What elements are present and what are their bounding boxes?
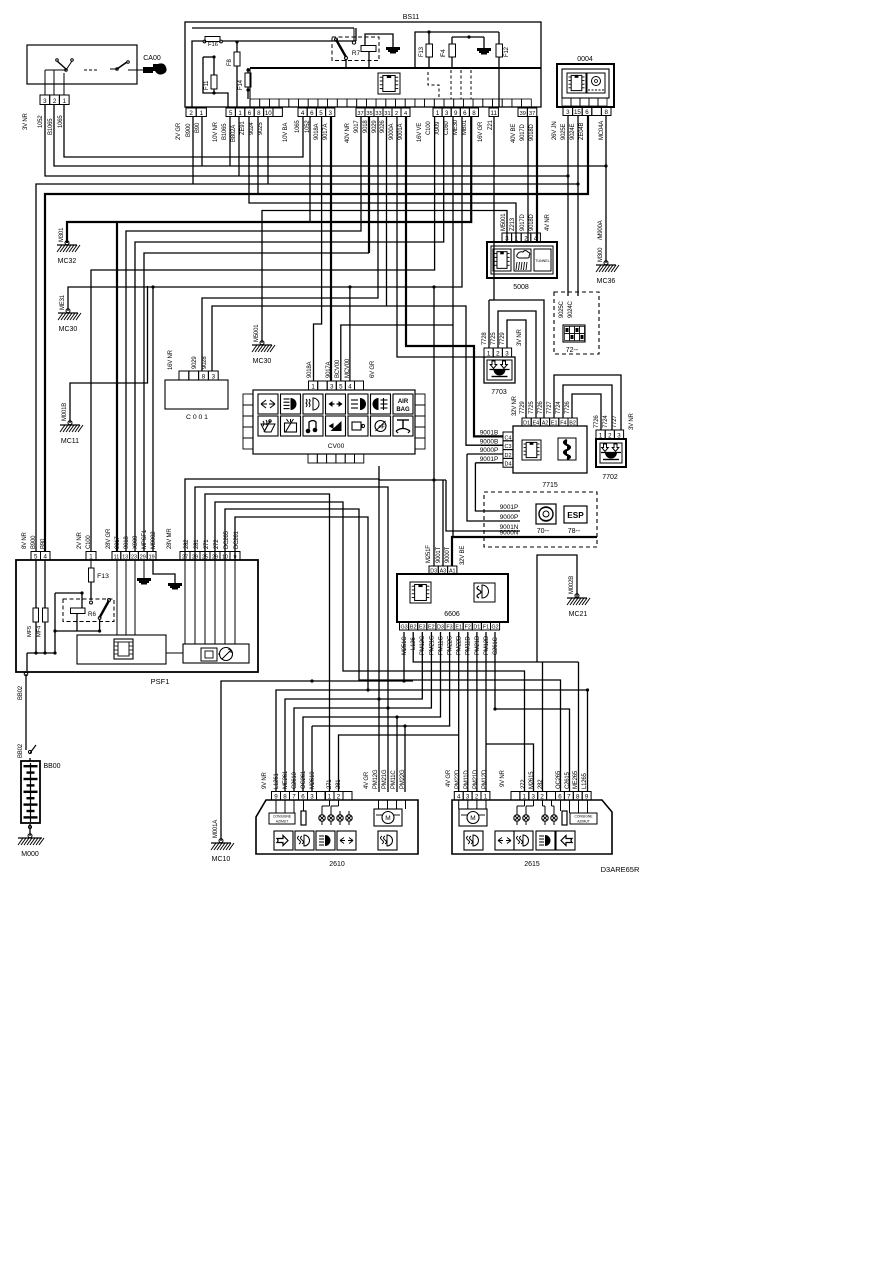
svg-text:BCV00: BCV00: [335, 359, 341, 378]
svg-text:PM12G: PM12G: [373, 769, 379, 789]
svg-text:M001B: M001B: [62, 403, 68, 421]
svg-text:BB02: BB02: [18, 685, 24, 700]
svg-text:D1: D1: [473, 625, 480, 631]
svg-text:F8: F8: [227, 59, 233, 66]
svg-text:7725: 7725: [491, 332, 497, 345]
svg-text:2: 2: [395, 111, 398, 117]
svg-text:R6: R6: [88, 611, 96, 618]
svg-text:B802A: B802A: [231, 125, 237, 142]
svg-text:8: 8: [202, 374, 206, 381]
svg-text:8: 8: [604, 109, 608, 116]
svg-text:C100: C100: [426, 121, 432, 135]
svg-text:28V GR: 28V GR: [106, 528, 112, 549]
svg-text:MC36: MC36: [597, 278, 616, 285]
svg-text:E2: E2: [428, 625, 435, 631]
svg-text:MC32: MC32: [58, 258, 77, 265]
svg-text:PM21G: PM21G: [382, 769, 388, 789]
svg-text:70--: 70--: [537, 528, 550, 535]
svg-text:0004: 0004: [577, 56, 593, 63]
svg-text:6606: 6606: [444, 611, 460, 618]
svg-text:281: 281: [194, 539, 200, 549]
svg-text:M002B: M002B: [569, 576, 575, 594]
svg-text:8: 8: [283, 794, 287, 801]
svg-text:9029: 9029: [372, 120, 378, 133]
svg-text:72--: 72--: [566, 347, 579, 354]
svg-text:10: 10: [265, 110, 272, 117]
svg-text:C160: C160: [444, 121, 450, 135]
svg-text:AIR: AIR: [398, 399, 409, 405]
svg-text:9000P: 9000P: [500, 514, 518, 521]
svg-text:3: 3: [445, 110, 449, 117]
svg-text:B90: B90: [195, 122, 201, 133]
svg-text:9028: 9028: [202, 356, 208, 369]
svg-text:C100: C100: [86, 535, 92, 549]
svg-text:PM22D: PM22D: [457, 635, 463, 655]
svg-text:32V BE: 32V BE: [460, 546, 466, 565]
svg-text:5008: 5008: [513, 284, 529, 291]
svg-text:L1261: L1261: [274, 772, 280, 789]
svg-text:7724: 7724: [603, 415, 609, 428]
svg-text:MF4: MF4: [37, 625, 43, 637]
svg-text:E1: E1: [455, 625, 462, 631]
svg-text:CONSIGNE: CONSIGNE: [273, 815, 292, 819]
svg-text:M2615: M2615: [529, 771, 535, 789]
svg-text:2: 2: [540, 794, 544, 801]
svg-text:2: 2: [337, 794, 341, 801]
svg-text:1052: 1052: [305, 120, 311, 133]
svg-text:7729: 7729: [500, 332, 506, 345]
svg-text:MC11: MC11: [61, 438, 79, 445]
svg-text:7726: 7726: [538, 401, 544, 414]
svg-text:11: 11: [490, 110, 497, 117]
svg-text:E1: E1: [551, 421, 558, 427]
svg-text:F1: F1: [483, 625, 489, 631]
svg-text:M301: M301: [59, 227, 65, 242]
svg-text:28V MR: 28V MR: [167, 528, 173, 549]
svg-text:9017: 9017: [354, 120, 360, 133]
svg-text:2: 2: [189, 110, 193, 117]
svg-text:271: 271: [327, 779, 333, 789]
svg-text:F2: F2: [465, 625, 471, 631]
svg-text:7: 7: [567, 794, 571, 801]
svg-text:F3: F3: [446, 625, 452, 631]
svg-text:40V BE: 40V BE: [511, 124, 517, 143]
svg-text:PM12D: PM12D: [484, 635, 490, 655]
svg-text:10V BA: 10V BA: [283, 123, 289, 142]
svg-text:9018D: 9018D: [529, 123, 535, 141]
svg-text:9018A: 9018A: [307, 361, 313, 378]
svg-text:9018D: 9018D: [529, 213, 535, 231]
svg-text:8: 8: [576, 794, 580, 801]
svg-text:9001T: 9001T: [436, 546, 442, 563]
svg-text:TUNNEL: TUNNEL: [535, 259, 549, 263]
svg-text:5: 5: [34, 554, 38, 561]
svg-text:OC265: OC265: [556, 770, 562, 789]
svg-text:9017D: 9017D: [520, 213, 526, 231]
svg-text:9017D: 9017D: [520, 123, 526, 141]
svg-text:9000A: 9000A: [389, 123, 395, 140]
svg-text:9025: 9025: [258, 122, 264, 135]
svg-text:F4: F4: [440, 49, 447, 57]
svg-text:7726: 7726: [565, 401, 571, 414]
svg-text:1065: 1065: [58, 115, 64, 128]
svg-text:6: 6: [585, 109, 589, 116]
svg-text:A1: A1: [449, 569, 456, 575]
svg-text:CA00: CA00: [143, 55, 161, 62]
svg-text:F13: F13: [97, 573, 109, 580]
svg-text:7702: 7702: [602, 474, 618, 481]
svg-text:1: 1: [523, 794, 527, 801]
svg-text:B2: B2: [410, 625, 417, 631]
svg-text:2610: 2610: [329, 861, 345, 868]
svg-text:R7: R7: [352, 50, 361, 57]
svg-text:7724: 7724: [556, 401, 562, 414]
svg-text:Z213: Z213: [510, 217, 516, 231]
svg-text:9001P: 9001P: [480, 456, 498, 463]
svg-text:5: 5: [339, 384, 343, 391]
svg-text:ME261: ME261: [283, 770, 289, 789]
svg-text:23: 23: [131, 555, 137, 561]
svg-text:2V NR: 2V NR: [77, 531, 83, 549]
svg-text:9000B: 9000B: [480, 439, 498, 446]
svg-text:ME30: ME30: [453, 119, 459, 135]
svg-text:C 0 0 1: C 0 0 1: [186, 414, 208, 421]
svg-text:11: 11: [114, 555, 120, 561]
svg-text:G3: G3: [400, 625, 407, 631]
svg-text:7715: 7715: [542, 482, 558, 489]
svg-text:F12: F12: [504, 46, 510, 57]
svg-text:33: 33: [375, 111, 381, 117]
svg-text:/M900A: /M900A: [598, 220, 604, 240]
svg-text:35: 35: [366, 111, 372, 117]
svg-text:9024C: 9024C: [568, 300, 574, 318]
svg-text:B900: B900: [186, 123, 192, 137]
svg-text:M5001: M5001: [254, 324, 260, 342]
svg-text:10V NR: 10V NR: [213, 121, 219, 142]
svg-text:B1065: B1065: [48, 118, 54, 135]
svg-text:MCV00: MCV00: [345, 358, 351, 378]
svg-text:16V GR: 16V GR: [478, 121, 484, 142]
svg-text:272: 272: [214, 539, 220, 549]
svg-text:1: 1: [311, 384, 315, 391]
svg-text:A3: A3: [440, 569, 447, 575]
svg-text:ZE91: ZE91: [240, 121, 246, 135]
svg-text:B2: B2: [569, 421, 576, 427]
svg-text:37: 37: [529, 111, 535, 117]
svg-text:9024: 9024: [249, 122, 255, 135]
svg-text:D4: D4: [505, 462, 512, 468]
svg-text:AZIMUT: AZIMUT: [276, 820, 289, 824]
svg-text:25: 25: [202, 555, 208, 561]
svg-text:9001A: 9001A: [398, 123, 404, 140]
svg-text:PM22G: PM22G: [448, 635, 454, 655]
svg-text:9000P: 9000P: [480, 447, 498, 454]
svg-text:M001A: M001A: [213, 820, 219, 838]
svg-text:L126: L126: [411, 637, 417, 650]
svg-text:3: 3: [43, 98, 47, 105]
svg-text:9V NR: 9V NR: [500, 769, 506, 787]
svg-text:D1: D1: [523, 421, 530, 427]
svg-text:9: 9: [274, 794, 278, 801]
svg-text:G2: G2: [491, 625, 498, 631]
svg-text:1052: 1052: [38, 115, 44, 128]
svg-text:13: 13: [122, 555, 128, 561]
svg-text:9V NR: 9V NR: [262, 771, 268, 789]
svg-text:19: 19: [149, 555, 155, 561]
svg-text:E3: E3: [419, 625, 426, 631]
svg-text:7: 7: [292, 794, 296, 801]
svg-text:AZIMUT: AZIMUT: [577, 820, 590, 824]
svg-text:40V NR: 40V NR: [345, 122, 351, 143]
svg-text:4: 4: [44, 554, 48, 561]
svg-text:BAG: BAG: [396, 407, 410, 413]
svg-text:6V GR: 6V GR: [370, 360, 376, 378]
svg-text:PSF1: PSF1: [151, 677, 170, 686]
svg-text:PM21D: PM21D: [473, 769, 479, 789]
svg-text:M251C: M251C: [402, 636, 408, 655]
svg-text:3: 3: [310, 794, 314, 801]
svg-text:3: 3: [328, 110, 332, 117]
svg-text:7727: 7727: [547, 401, 553, 414]
svg-text:4V GR: 4V GR: [364, 771, 370, 789]
svg-text:29: 29: [212, 555, 218, 561]
svg-text:PM12D: PM12D: [482, 769, 488, 789]
svg-text:1: 1: [484, 794, 488, 801]
svg-text:PM22G: PM22G: [400, 769, 406, 789]
svg-text:32V NR: 32V NR: [512, 395, 518, 416]
svg-text:9: 9: [585, 794, 589, 801]
svg-text:6: 6: [310, 110, 314, 117]
svg-text:6: 6: [463, 110, 467, 117]
svg-text:M5001: M5001: [501, 213, 507, 231]
svg-text:4: 4: [301, 110, 305, 117]
svg-text:PM21D: PM21D: [475, 635, 481, 655]
svg-text:ESP: ESP: [567, 511, 584, 520]
svg-text:9017: 9017: [115, 536, 121, 549]
svg-text:1: 1: [200, 110, 204, 117]
svg-text:9026: 9026: [380, 120, 386, 133]
svg-text:3: 3: [466, 794, 470, 801]
svg-text:MC30: MC30: [253, 358, 272, 365]
svg-text:C2615: C2615: [565, 771, 571, 789]
svg-text:281: 281: [336, 779, 342, 789]
svg-text:9: 9: [454, 110, 458, 117]
svg-text:E4: E4: [533, 421, 540, 427]
svg-text:X909: X909: [435, 121, 441, 135]
svg-text:M2610: M2610: [310, 771, 316, 789]
svg-text:4V NR: 4V NR: [545, 213, 551, 231]
svg-text:3: 3: [532, 794, 536, 801]
svg-text:9025C: 9025C: [559, 300, 565, 318]
svg-text:F14: F14: [238, 79, 244, 90]
svg-text:ME31: ME31: [60, 294, 66, 310]
svg-text:9000N: 9000N: [500, 530, 519, 537]
svg-text:7726: 7726: [594, 415, 600, 428]
svg-text:DC265: DC265: [224, 530, 230, 549]
svg-text:8: 8: [257, 110, 261, 117]
svg-text:31: 31: [384, 111, 390, 117]
svg-text:L1265: L1265: [582, 772, 588, 789]
svg-text:4V GR: 4V GR: [446, 769, 452, 787]
svg-text:3V NR: 3V NR: [629, 412, 635, 430]
svg-text:9001B: 9001B: [480, 430, 498, 437]
svg-text:B90: B90: [41, 538, 47, 549]
svg-text:7728: 7728: [482, 332, 488, 345]
svg-text:27: 27: [182, 555, 188, 561]
svg-text:PM12G: PM12G: [420, 635, 426, 655]
svg-text:BB00: BB00: [43, 763, 60, 770]
svg-text:271: 271: [204, 539, 210, 549]
svg-text:F4: F4: [560, 421, 566, 427]
svg-text:9: 9: [234, 555, 237, 561]
svg-text:9018: 9018: [363, 120, 369, 133]
svg-text:M9002: M9002: [151, 531, 157, 549]
svg-text:16V VE: 16V VE: [417, 123, 423, 142]
svg-text:9025E: 9025E: [561, 123, 567, 140]
svg-text:F11: F11: [204, 80, 210, 90]
svg-text:7725: 7725: [529, 401, 535, 414]
svg-text:A2: A2: [542, 421, 549, 427]
svg-text:7703: 7703: [491, 389, 507, 396]
svg-text:D3ARE65R: D3ARE65R: [601, 865, 640, 874]
svg-text:1: 1: [328, 794, 332, 801]
svg-text:CV00: CV00: [328, 443, 345, 450]
svg-text:Z21: Z21: [488, 119, 494, 130]
svg-text:BB02: BB02: [18, 743, 24, 758]
svg-text:7729: 7729: [520, 401, 526, 414]
svg-text:X909: X909: [133, 535, 139, 549]
svg-text:DC261: DC261: [234, 530, 240, 549]
svg-text:9024E: 9024E: [570, 123, 576, 140]
svg-text:2: 2: [475, 794, 479, 801]
svg-text:9018: 9018: [124, 536, 130, 549]
svg-text:4: 4: [404, 111, 407, 117]
svg-text:D3: D3: [437, 625, 444, 631]
svg-text:4: 4: [457, 794, 461, 801]
svg-text:M: M: [385, 815, 390, 822]
svg-text:C2610: C2610: [292, 771, 298, 789]
svg-text:3V NR: 3V NR: [517, 328, 523, 346]
svg-text:16V NR: 16V NR: [168, 349, 174, 370]
svg-text:M251F: M251F: [426, 545, 432, 563]
svg-text:8: 8: [472, 110, 476, 117]
svg-text:OC261: OC261: [301, 770, 307, 789]
svg-text:D3: D3: [430, 569, 437, 575]
svg-text:9000T: 9000T: [445, 546, 451, 563]
svg-text:PM21G: PM21G: [429, 635, 435, 655]
svg-text:1: 1: [436, 110, 440, 117]
svg-text:9017A: 9017A: [326, 361, 332, 378]
svg-text:BS11: BS11: [403, 14, 420, 21]
svg-text:PM11D: PM11D: [464, 770, 470, 789]
svg-text:9001P: 9001P: [500, 504, 518, 511]
svg-text:MC04A: MC04A: [599, 121, 605, 140]
svg-text:4: 4: [348, 384, 352, 391]
svg-text:MC10: MC10: [212, 856, 231, 863]
svg-text:MB01: MB01: [462, 119, 468, 135]
svg-text:272: 272: [521, 779, 527, 789]
svg-text:3: 3: [330, 384, 334, 391]
svg-text:1: 1: [238, 110, 242, 117]
svg-text:2: 2: [53, 98, 57, 105]
svg-text:C261C: C261C: [493, 636, 499, 655]
svg-text:M300: M300: [598, 247, 604, 262]
svg-text:6: 6: [301, 794, 305, 801]
svg-text:15: 15: [574, 109, 581, 116]
svg-text:ME265: ME265: [573, 770, 579, 789]
svg-text:CONSIGNE: CONSIGNE: [574, 815, 593, 819]
svg-text:5: 5: [319, 110, 323, 117]
svg-text:2V GR: 2V GR: [176, 122, 182, 140]
svg-text:9029: 9029: [192, 356, 198, 369]
svg-text:8V NR: 8V NR: [22, 531, 28, 549]
svg-text:1065: 1065: [295, 120, 301, 133]
svg-text:29: 29: [140, 555, 146, 561]
svg-text:F16: F16: [208, 42, 218, 48]
svg-text:282: 282: [538, 779, 544, 789]
svg-text:MC21: MC21: [569, 611, 588, 618]
svg-text:10: 10: [222, 555, 228, 561]
svg-text:MF5: MF5: [27, 626, 33, 637]
svg-text:M000: M000: [21, 851, 39, 858]
svg-text:26V JN: 26V JN: [552, 122, 558, 140]
svg-text:9018A: 9018A: [314, 123, 320, 140]
svg-text:PM22D: PM22D: [455, 769, 461, 789]
svg-text:MPSF1: MPSF1: [142, 529, 148, 549]
svg-text:9017A: 9017A: [323, 123, 329, 140]
svg-text:37: 37: [357, 111, 363, 117]
svg-text:B900: B900: [31, 535, 37, 549]
svg-text:PM11C: PM11C: [391, 770, 397, 789]
svg-text:3V NR: 3V NR: [23, 112, 29, 130]
svg-text:6: 6: [248, 110, 252, 117]
svg-text:7727: 7727: [612, 415, 618, 428]
svg-text:6: 6: [558, 794, 562, 801]
svg-text:29: 29: [192, 555, 198, 561]
svg-text:1: 1: [63, 98, 67, 105]
svg-text:2615: 2615: [524, 861, 540, 868]
svg-text:B1065: B1065: [222, 123, 228, 140]
svg-text:MC30: MC30: [59, 326, 78, 333]
svg-text:282: 282: [184, 539, 190, 549]
svg-text:3: 3: [566, 109, 570, 116]
svg-text:M: M: [470, 815, 475, 822]
svg-text:1: 1: [89, 554, 93, 561]
svg-text:F13: F13: [419, 46, 425, 57]
svg-text:3: 3: [212, 374, 216, 381]
svg-text:5: 5: [229, 110, 233, 117]
svg-text:39: 39: [520, 111, 526, 117]
svg-text:PM11D: PM11D: [466, 636, 472, 655]
svg-text:PM11G: PM11G: [438, 636, 444, 655]
svg-text:ZE04B: ZE04B: [579, 122, 585, 140]
svg-text:78--: 78--: [568, 528, 581, 535]
